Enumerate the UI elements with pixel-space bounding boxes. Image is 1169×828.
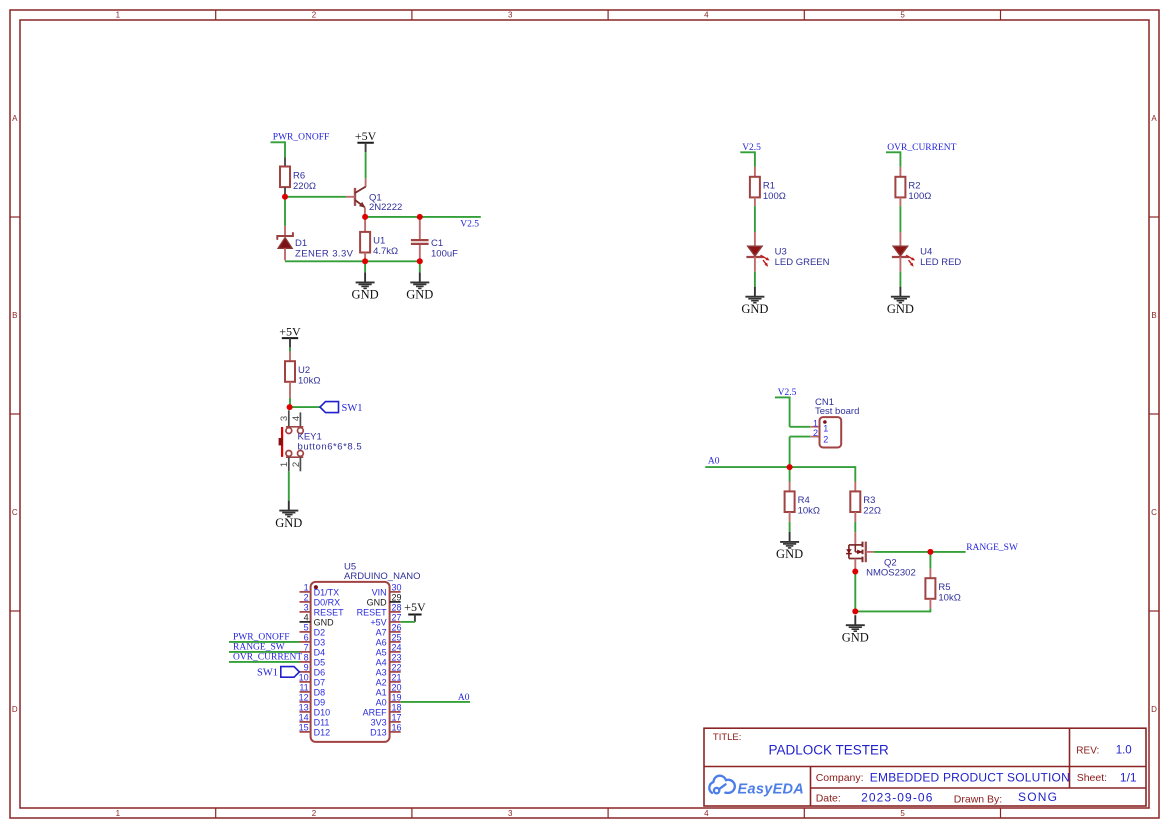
svg-text:NMOS2302: NMOS2302 — [866, 567, 916, 578]
wire KEY1 to GND3 — [288, 471, 290, 500]
svg-text:15: 15 — [299, 723, 309, 733]
IC U5 body — [311, 582, 390, 742]
diode D1 bottom pin — [284, 248, 286, 260]
svg-text:5: 5 — [900, 809, 905, 818]
svg-text:D0/RX: D0/RX — [314, 597, 341, 607]
title block divider horizontal company/date — [811, 787, 1147, 789]
power +5V PWR1 stem — [365, 143, 367, 153]
frame column tick bottom x=215.7 — [215, 808, 217, 818]
svg-text:29: 29 — [392, 593, 402, 603]
svg-text:AREF: AREF — [363, 707, 388, 717]
transistor Q2 drain pin — [854, 532, 856, 545]
wire V2.5 flag horizontal — [740, 151, 755, 153]
svg-text:EasyEDA: EasyEDA — [738, 782, 805, 798]
key KEY1 bottom contact bar — [286, 456, 303, 458]
wire Q2 source to bottom rail — [854, 572, 856, 612]
frame column tick bottom x=804.3 — [803, 808, 805, 818]
svg-text:GND: GND — [887, 302, 914, 316]
svg-text:2: 2 — [823, 434, 828, 444]
svg-text:D9: D9 — [314, 697, 326, 707]
IC U5 pin 18 line — [390, 711, 401, 713]
wire U2 to node — [289, 398, 291, 407]
IC U5 pin 7 line — [300, 651, 311, 653]
key KEY1 pin 1 — [288, 457, 290, 471]
IC U5 pin 25 line — [390, 641, 401, 643]
svg-text:RANGE_SW: RANGE_SW — [966, 543, 1018, 553]
svg-text:D7: D7 — [314, 677, 326, 687]
transistor Q2 body-diode triangle — [846, 549, 852, 553]
svg-text:D12: D12 — [314, 727, 331, 737]
transistor Q1 base pin — [346, 196, 355, 198]
LED U3 emission arrows — [761, 255, 770, 267]
svg-text:4: 4 — [704, 809, 709, 818]
ground GND5 stem — [899, 287, 901, 297]
diode D1 triangle — [278, 238, 292, 249]
wire A0 corner down to R3 — [854, 466, 856, 481]
transistor Q2 body-diode line — [848, 545, 850, 559]
ground GND2 stem — [419, 272, 421, 282]
svg-text:A1: A1 — [376, 687, 387, 697]
title block divider vertical logo cell — [810, 767, 812, 807]
wire emitter node to V2.5 — [365, 216, 481, 218]
ground GND7 stem — [854, 615, 856, 625]
transistor Q2 body-diode bar — [846, 553, 852, 555]
IC U5 pin 5 line — [300, 631, 311, 633]
wire CN1 pin2 down to A0 rail — [789, 437, 791, 468]
svg-text:2023-09-06: 2023-09-06 — [861, 791, 933, 805]
connector CN1 pin1 indicator dot — [823, 420, 827, 424]
svg-text:1/1: 1/1 — [1120, 770, 1137, 784]
IC U5 pin 22 line — [390, 671, 401, 673]
resistor R6 bottom pin — [284, 187, 286, 197]
svg-text:28: 28 — [392, 603, 402, 613]
junction node Q1 base — [282, 194, 288, 200]
wire bottom rail — [285, 260, 420, 262]
ground GND7 bars — [846, 624, 865, 626]
wire V2.5 down to R1 — [754, 151, 756, 167]
svg-text:2: 2 — [312, 809, 317, 818]
title block divider horizontal title/company — [704, 766, 1146, 768]
wire R4 top — [789, 467, 791, 481]
transistor Q1 base bar — [354, 188, 356, 206]
IC U5 pin 4 line — [300, 621, 311, 623]
power +5V flag at pin 27 bar — [408, 614, 421, 616]
resistor R5 top pin — [929, 568, 931, 578]
key KEY1 pin 2 — [299, 457, 301, 471]
svg-text:D4: D4 — [314, 647, 326, 657]
svg-text:A: A — [12, 114, 18, 123]
ground GND2 bars — [410, 281, 429, 283]
wire RANGE_SW to pin 7 — [229, 651, 300, 653]
svg-text:LED RED: LED RED — [920, 257, 961, 268]
wire PWR_ONOFF to pin 6 — [229, 641, 300, 643]
capacitor C1 plates — [411, 239, 429, 241]
svg-text:A6: A6 — [376, 637, 387, 647]
svg-text:A3: A3 — [376, 667, 387, 677]
svg-text:A0: A0 — [708, 456, 720, 466]
svg-text:B: B — [12, 311, 17, 320]
connector CN1 pin 1 line — [810, 426, 819, 428]
resistor R3 bottom pin — [854, 512, 856, 522]
resistor R6 top pin — [284, 158, 286, 167]
net port SW1 flag (pin 9) — [281, 667, 300, 678]
svg-text:A0: A0 — [458, 693, 470, 703]
transistor Q1 emitter diagonal — [355, 200, 365, 207]
svg-text:A7: A7 — [376, 627, 387, 637]
svg-text:10kΩ: 10kΩ — [298, 376, 320, 387]
IC U5 pin 26 line — [390, 631, 401, 633]
IC U5 pin 6 line — [300, 641, 311, 643]
IC U5 pin 19 line — [390, 701, 401, 703]
frame column tick top x=215.7 — [215, 10, 217, 20]
svg-text:R6: R6 — [293, 170, 305, 181]
junction node RANGE_SW/R5 — [927, 549, 933, 555]
svg-text:R4: R4 — [798, 495, 810, 506]
junction node V2.5 emitter — [362, 214, 368, 220]
wire rail to GND1 — [364, 261, 366, 272]
svg-text:8: 8 — [304, 653, 309, 663]
svg-text:SW1: SW1 — [257, 668, 278, 679]
svg-text:V2.5: V2.5 — [778, 388, 797, 398]
svg-text:23: 23 — [392, 653, 402, 663]
ground GND5 bars — [891, 296, 910, 298]
frame row tick left y=611 — [10, 610, 20, 612]
svg-text:VIN: VIN — [372, 587, 387, 597]
svg-text:GND: GND — [352, 288, 379, 302]
resistor R1 top pin — [754, 167, 756, 177]
svg-text:5: 5 — [900, 11, 905, 20]
power +5V flag at pin 27 stem — [414, 615, 416, 622]
svg-text:27: 27 — [392, 613, 402, 623]
svg-text:2: 2 — [813, 428, 818, 438]
wire R5 to bottom rail — [929, 608, 931, 612]
svg-text:A4: A4 — [376, 657, 387, 667]
svg-text:11: 11 — [299, 683, 308, 693]
ground GND1 stem — [364, 272, 366, 282]
junction node rail U1 — [362, 258, 368, 264]
svg-text:22: 22 — [392, 663, 402, 673]
IC U5 pin 12 line — [300, 701, 311, 703]
resistor U1 body — [360, 232, 370, 253]
svg-text:16: 16 — [392, 723, 402, 733]
LED U3 cathode bar — [746, 256, 763, 258]
EasyEDA logo cloud icon — [709, 776, 735, 794]
svg-text:D1/TX: D1/TX — [314, 587, 340, 597]
svg-text:100Ω: 100Ω — [908, 191, 931, 202]
power +5V PWR2 bar — [282, 337, 298, 339]
junction node rail C1 — [417, 258, 423, 264]
svg-text:1: 1 — [813, 418, 818, 428]
frame column tick top x=804.3 — [803, 10, 805, 20]
svg-text:2: 2 — [304, 593, 309, 603]
transistor Q2 vertical drain-source link — [854, 545, 856, 552]
svg-text:3: 3 — [304, 603, 309, 613]
frame row tick left y=414 — [10, 413, 20, 415]
svg-text:1: 1 — [279, 462, 290, 467]
IC U5 pin 9 line — [300, 671, 311, 673]
svg-text:R5: R5 — [938, 582, 950, 593]
connector CN1 body — [820, 417, 842, 447]
svg-text:18: 18 — [392, 703, 402, 713]
wire R3 to Q2 drain — [854, 522, 856, 532]
svg-text:12: 12 — [299, 693, 309, 703]
resistor R5 body — [925, 578, 935, 599]
wire OVR_CURRENT flag horizontal — [886, 151, 900, 153]
svg-text:13: 13 — [299, 703, 309, 713]
svg-text:1: 1 — [304, 583, 309, 593]
resistor U2 top pin — [289, 352, 291, 362]
IC U5 pin 27 line — [390, 621, 401, 623]
svg-text:LED GREEN: LED GREEN — [775, 257, 830, 268]
key KEY1 pin 4 — [299, 412, 301, 427]
ground GND3 bars — [279, 510, 298, 512]
wire base node to Q1 — [285, 196, 346, 198]
frame column tick bottom x=411.9 — [411, 808, 413, 818]
svg-text:RESET: RESET — [357, 607, 388, 617]
LED U4 triangle — [893, 246, 907, 256]
LED U4 bottom pin — [899, 257, 901, 272]
IC U5 pin 11 line — [300, 691, 311, 693]
resistor U1 bottom pin — [364, 253, 366, 262]
resistor R1 bottom pin — [754, 197, 756, 206]
svg-text:D1: D1 — [295, 238, 307, 249]
svg-text:25: 25 — [392, 633, 402, 643]
svg-text:R3: R3 — [863, 495, 875, 506]
IC U5 pin 30 line — [390, 591, 401, 593]
svg-text:GND: GND — [314, 617, 335, 627]
svg-text:+5V: +5V — [370, 617, 386, 627]
frame column tick bottom x=1000.5 — [1000, 808, 1002, 818]
svg-text:D13: D13 — [370, 727, 387, 737]
transistor Q1 emitter pin — [364, 207, 366, 217]
junction node C1 top — [417, 214, 423, 220]
key KEY1 top contact bar — [286, 426, 303, 428]
svg-text:4.7kΩ: 4.7kΩ — [373, 246, 398, 257]
svg-text:20: 20 — [392, 683, 402, 693]
resistor R4 bottom pin — [789, 512, 791, 522]
IC U5 pin 13 line — [300, 711, 311, 713]
LED U3 triangle — [748, 246, 762, 256]
LED U4 emission arrows — [906, 255, 915, 267]
ground GND1 bars — [356, 281, 375, 283]
junction node Q2 source — [852, 569, 858, 575]
svg-text:1.0: 1.0 — [1116, 745, 1132, 757]
diode D1 top pin — [284, 226, 286, 236]
svg-text:+5V: +5V — [355, 129, 377, 143]
wire U3 to GND4 — [754, 272, 756, 287]
svg-text:4: 4 — [291, 416, 302, 421]
wire OVR_CURRENT down to R2 — [899, 151, 901, 167]
svg-text:3: 3 — [508, 809, 513, 818]
IC U5 pin 24 line — [390, 651, 401, 653]
svg-text:C: C — [1151, 508, 1157, 517]
net port SW1 flag — [320, 402, 339, 413]
transistor Q1 collector diagonal — [355, 187, 366, 193]
IC U5 pin 17 line — [390, 721, 401, 723]
svg-text:17: 17 — [392, 713, 402, 723]
svg-text:D2: D2 — [314, 627, 326, 637]
frame column tick bottom x=608.1 — [607, 808, 609, 818]
transistor Q1 collector pin — [365, 178, 367, 187]
ground GND6 stem — [789, 532, 791, 542]
transistor Q2 drain horizontal — [849, 544, 863, 546]
svg-text:6: 6 — [304, 633, 309, 643]
wire R2 to U4 — [899, 206, 901, 232]
frame row tick right y=217 — [1149, 216, 1159, 218]
svg-text:Date:: Date: — [816, 793, 841, 805]
resistor R4 top pin — [789, 482, 791, 492]
capacitor C1 bottom pin — [419, 245, 421, 261]
key KEY1 actuator line — [281, 427, 283, 457]
svg-text:7: 7 — [304, 643, 309, 653]
svg-text:A5: A5 — [376, 647, 387, 657]
svg-text:PADLOCK TESTER: PADLOCK TESTER — [769, 743, 890, 758]
svg-text:10: 10 — [299, 673, 309, 683]
IC U5 pin 3 line — [300, 611, 311, 613]
wire node to SW1 port — [290, 406, 320, 408]
key KEY1 top contact circles — [286, 428, 292, 434]
svg-text:Sheet:: Sheet: — [1077, 772, 1107, 784]
resistor R5 bottom pin — [929, 599, 931, 609]
svg-text:30: 30 — [392, 583, 402, 593]
wire U4 to GND5 — [899, 272, 901, 287]
junction node bottom rail — [852, 608, 858, 614]
wire node down to D1 — [284, 197, 286, 226]
svg-text:SW1: SW1 — [342, 403, 363, 414]
resistor R2 top pin — [899, 167, 901, 177]
svg-text:5: 5 — [304, 623, 309, 633]
svg-text:U1: U1 — [373, 236, 385, 247]
resistor U2 bottom pin — [289, 382, 291, 398]
connector CN1 pin 2 line — [810, 436, 819, 438]
svg-text:C1: C1 — [431, 238, 443, 249]
IC U5 pin 8 line — [300, 661, 311, 663]
wire CN1 pin 2 left — [790, 436, 811, 438]
power +5V PWR2 stem — [289, 338, 291, 348]
svg-text:D5: D5 — [314, 657, 326, 667]
svg-text:9: 9 — [304, 663, 309, 673]
svg-text:GND: GND — [776, 547, 803, 561]
transistor Q2 gate bar — [865, 542, 867, 563]
svg-text:D10: D10 — [314, 707, 331, 717]
wire +5V to Q1 collector — [365, 152, 367, 178]
frame row tick right y=414 — [1149, 413, 1159, 415]
wire R4 to GND6 — [789, 522, 791, 532]
svg-text:10kΩ: 10kΩ — [938, 593, 960, 604]
power +5V PWR1 bar — [357, 142, 373, 144]
transistor Q1 emitter arrow — [359, 202, 365, 208]
svg-text:3V3: 3V3 — [371, 717, 387, 727]
svg-text:RESET: RESET — [314, 607, 345, 617]
resistor R2 body — [895, 177, 905, 198]
wire PWR_ONOFF down to R6 — [284, 141, 286, 157]
key KEY1 bottom contact circles — [286, 451, 292, 457]
resistor U2 body — [285, 361, 295, 382]
svg-text:22Ω: 22Ω — [863, 506, 881, 517]
title block divider vertical REV/Sheet column — [1069, 728, 1071, 788]
svg-text:D8: D8 — [314, 687, 326, 697]
svg-text:2N2222: 2N2222 — [369, 202, 402, 213]
svg-text:GND: GND — [367, 597, 388, 607]
svg-text:EMBEDDED PRODUCT SOLUTION: EMBEDDED PRODUCT SOLUTION — [870, 770, 1070, 784]
title block outline — [704, 728, 1146, 806]
svg-text:100uF: 100uF — [431, 248, 458, 259]
IC U5 pin1 indicator dot — [314, 585, 318, 589]
svg-text:GND: GND — [842, 630, 869, 644]
IC U5 pin 28 line — [390, 611, 401, 613]
wire OVR_CURRENT to pin 8 — [229, 661, 300, 663]
frame column tick top x=608.1 — [607, 10, 609, 20]
svg-text:220Ω: 220Ω — [293, 181, 316, 192]
wire rail to GND2 — [419, 261, 421, 272]
LED U4 cathode bar — [892, 256, 909, 258]
wire bottom rail to R5 — [855, 610, 930, 612]
svg-text:ARDUINO_NANO: ARDUINO_NANO — [344, 571, 421, 582]
wire pin 27 to +5V flag — [401, 621, 415, 623]
wire PWR_ONOFF horizontal — [271, 141, 286, 143]
svg-text:V2.5: V2.5 — [460, 219, 479, 229]
ground GND4 stem — [754, 287, 756, 297]
svg-text:A2: A2 — [376, 677, 387, 687]
svg-text:+5V: +5V — [404, 600, 426, 614]
IC U5 pin 15 line — [300, 731, 311, 733]
svg-text:GND: GND — [406, 288, 433, 302]
svg-text:B: B — [1151, 311, 1156, 320]
IC U5 pin 16 line — [390, 731, 401, 733]
IC U5 pin 2 line — [300, 601, 311, 603]
svg-text:19: 19 — [392, 693, 402, 703]
key KEY1 pin 3 — [288, 410, 290, 427]
wire A0 rail — [705, 466, 855, 468]
svg-text:ZENER 3.3V: ZENER 3.3V — [295, 248, 354, 259]
svg-text:3: 3 — [279, 416, 290, 421]
IC U5 pin 20 line — [390, 691, 401, 693]
IC U5 pin 14 line — [300, 721, 311, 723]
svg-text:14: 14 — [299, 713, 309, 723]
svg-text:D6: D6 — [314, 667, 326, 677]
svg-text:GND: GND — [741, 302, 768, 316]
svg-text:1: 1 — [116, 809, 121, 818]
svg-text:1: 1 — [823, 424, 828, 434]
wire +5V to U2 — [289, 348, 291, 352]
svg-text:24: 24 — [392, 643, 402, 653]
IC U5 pin 29 line — [390, 601, 401, 603]
svg-text:10kΩ: 10kΩ — [798, 506, 820, 517]
frame column tick top x=1000.5 — [1000, 10, 1002, 20]
svg-text:GND: GND — [275, 516, 302, 530]
wire V2.5 down — [789, 397, 791, 427]
resistor R3 top pin — [854, 482, 856, 492]
svg-text:R1: R1 — [763, 181, 775, 192]
svg-text:D: D — [12, 705, 18, 714]
resistor U1 top pin — [364, 217, 366, 232]
transistor Q2 substrate arrow — [855, 551, 861, 553]
svg-text:100Ω: 100Ω — [763, 191, 786, 202]
transistor Q2 channel bar segments — [862, 542, 864, 548]
wire to CN1 pin 1 — [790, 426, 811, 428]
diode D1 zener cathode bar — [277, 233, 293, 239]
resistor R3 body — [850, 491, 860, 512]
wire pin 19 to A0 — [401, 701, 470, 703]
transistor Q2 source pin — [854, 559, 856, 572]
resistor R2 bottom pin — [899, 197, 901, 206]
LED U3 bottom pin — [754, 257, 756, 272]
wire RANGE_SW horizontal — [874, 551, 966, 553]
svg-text:1: 1 — [116, 11, 121, 20]
resistor R4 body — [785, 491, 795, 512]
svg-text:R2: R2 — [908, 181, 920, 192]
svg-text:REV:: REV: — [1076, 746, 1099, 757]
